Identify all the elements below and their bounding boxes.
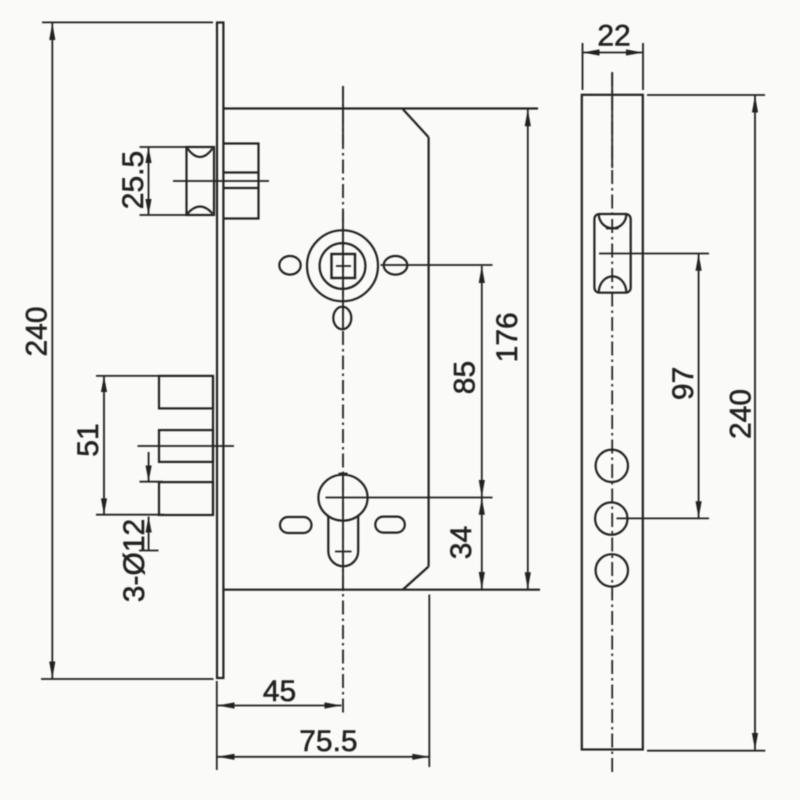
roller latch cutout side view (594, 214, 630, 293)
lock case outline (223, 109, 540, 590)
dim 34 line (479, 498, 485, 589)
dim 240 right extension lines (647, 95, 765, 751)
dim 85 line (479, 266, 485, 497)
svg-text:85: 85 (449, 361, 482, 394)
dim 176 line (525, 109, 531, 589)
deadbolt pin 3 (159, 482, 213, 515)
spindle square hole (332, 254, 356, 278)
faceplate front view (216, 23, 224, 679)
vertical centerline right view (611, 72, 613, 772)
screw hole circle 3 (596, 554, 628, 586)
circle 2 center line (617, 517, 710, 519)
latch center line side view (599, 253, 709, 255)
spindle hub inner circle (320, 243, 366, 289)
deadbolt pin 1 (159, 376, 213, 409)
dim 25.5 line (145, 147, 151, 215)
pin 2 centerline (138, 445, 235, 447)
latch centerline (173, 180, 269, 182)
svg-text:45: 45 (263, 675, 296, 708)
roller latch bolt front view (187, 147, 215, 215)
dim 240 left line (49, 23, 55, 679)
dim 22 line (583, 49, 644, 55)
pins back edge line (212, 376, 214, 515)
svg-text:240: 240 (725, 389, 758, 439)
svg-text:240: 240 (21, 306, 54, 356)
dim 45 line (218, 702, 342, 708)
svg-text:51: 51 (72, 423, 105, 456)
dim 51 line (101, 376, 107, 514)
svg-text:97: 97 (667, 367, 700, 400)
svg-text:22: 22 (597, 20, 630, 53)
spindle hub outer circle (307, 230, 378, 301)
dim 240 right line (752, 96, 758, 751)
svg-text:25.5: 25.5 (117, 151, 150, 209)
hub right oval hole (384, 256, 408, 275)
dim 75.5 line (218, 754, 430, 760)
svg-text:176: 176 (491, 312, 524, 362)
bottom left extension line (216, 681, 218, 770)
cylinder right oval hole (375, 517, 405, 533)
bottom right extension line (428, 595, 430, 768)
dim 97 line (696, 254, 702, 518)
dim 240 left extension lines (41, 22, 214, 679)
deadbolt pin 2 (159, 430, 213, 462)
hub bottom oval hole (333, 307, 351, 330)
dim Ø12 tick (140, 481, 164, 483)
svg-text:3-Ø12: 3-Ø12 (118, 519, 151, 602)
hub left oval hole (279, 256, 300, 275)
svg-text:34: 34 (445, 526, 478, 559)
dim 22 extension lines (583, 43, 644, 90)
dim Ø12 arrows (139, 452, 159, 551)
latch tail block inside case (224, 144, 259, 219)
dim 25.5 extension lines (140, 147, 188, 215)
screw hole circle 2 (595, 502, 627, 534)
euro cylinder hole (318, 474, 367, 567)
svg-text:75.5: 75.5 (299, 725, 357, 758)
screw hole circle 1 (596, 450, 628, 482)
dim 51 extension lines (96, 376, 164, 515)
cylinder center extension line (326, 497, 493, 499)
vertical centerline left view (342, 86, 344, 716)
hub center extension line (381, 264, 493, 266)
cylinder left oval hole (280, 517, 312, 533)
faceplate side view outline (582, 95, 643, 750)
